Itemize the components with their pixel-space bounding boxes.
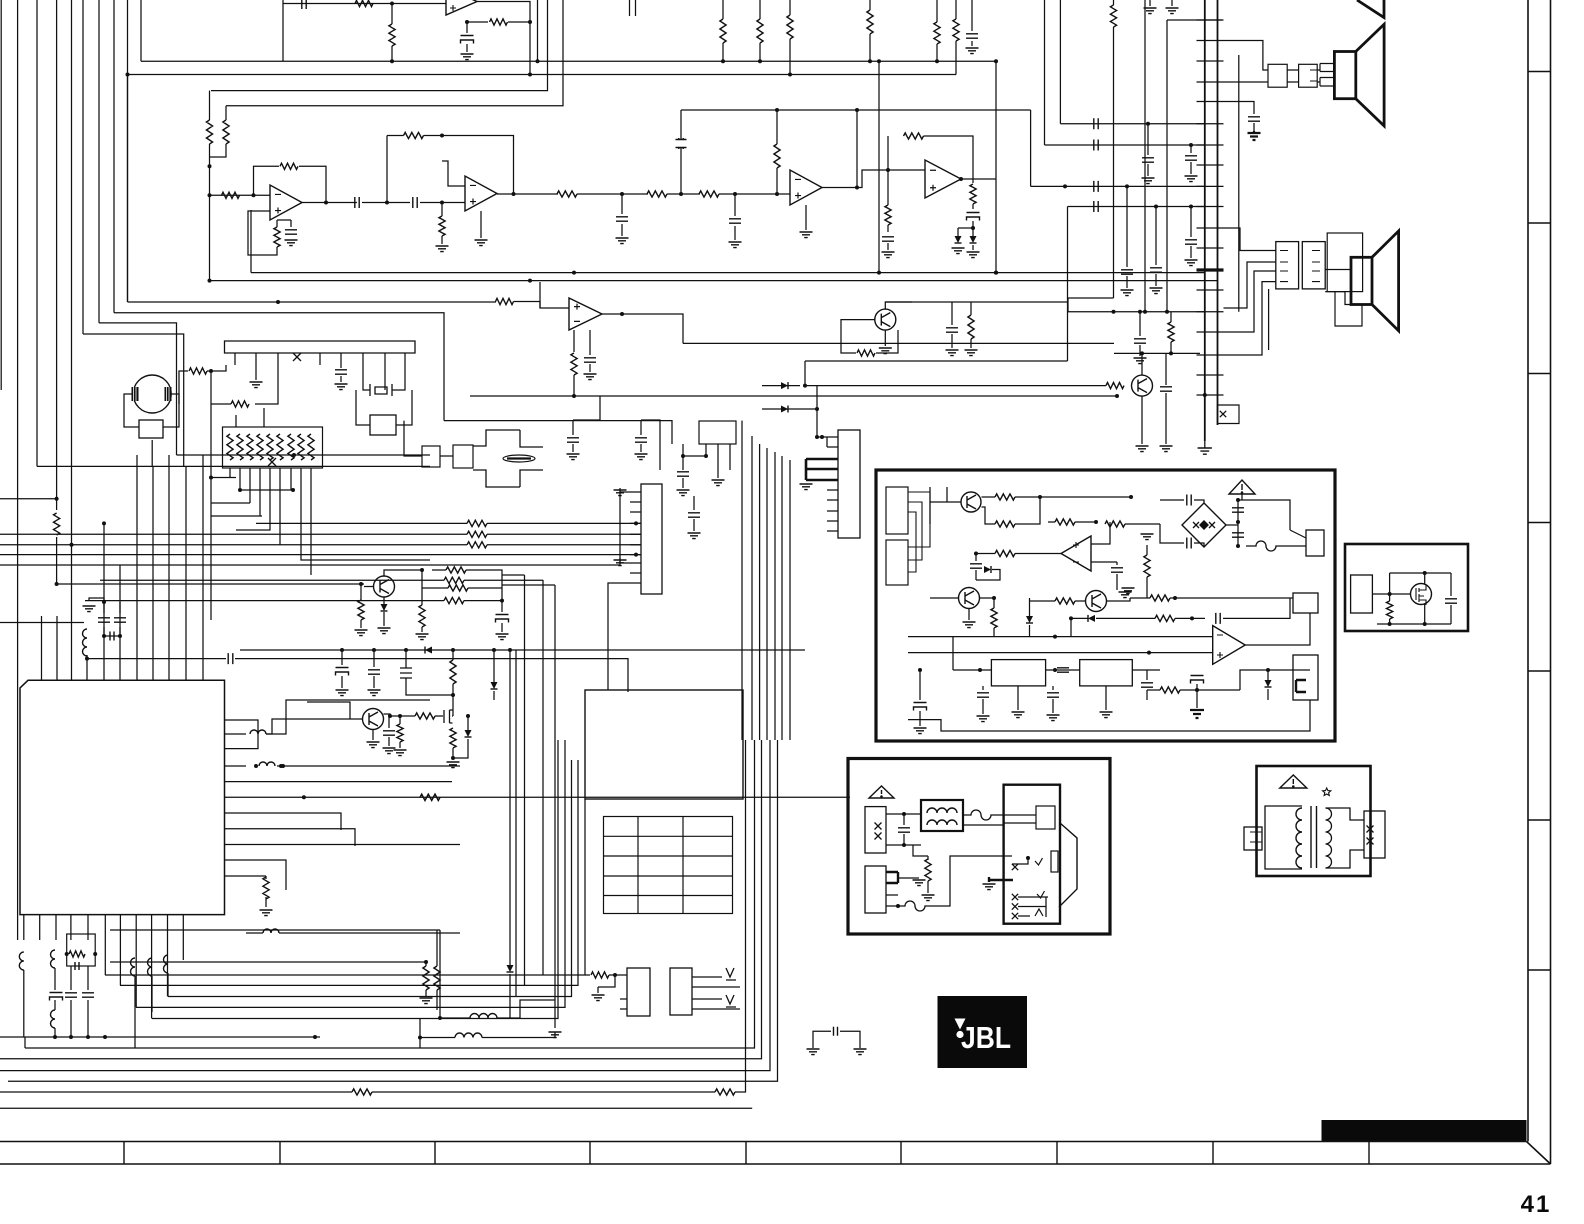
wire vert x=555 bbox=[554, 585, 556, 1000]
wire bus 1060 bbox=[1059, 0, 1061, 124]
wire vert x=635 bbox=[635, 0, 637, 16]
node 280b bbox=[528, 279, 532, 283]
capacitor C1117 bbox=[1111, 568, 1123, 572]
wire bl8 bbox=[87, 1000, 89, 1037]
node ic link bbox=[1053, 668, 1057, 672]
wire r876b bbox=[265, 897, 267, 907]
ground 622 bbox=[616, 238, 629, 244]
wire CN1 r b bbox=[211, 403, 231, 405]
wire u3a in bbox=[210, 194, 271, 196]
wire q3 c3 bbox=[466, 570, 502, 588]
wire rail 658b bbox=[235, 659, 628, 692]
wire u3b fb b bbox=[424, 136, 514, 195]
wire rail y=477 bbox=[211, 477, 236, 479]
resistor R u3a b bbox=[274, 227, 280, 247]
diode D785b bbox=[781, 406, 788, 413]
wire vert 420 bbox=[419, 1018, 421, 1048]
wire pin766 bbox=[277, 765, 460, 767]
resistor R pa3 bbox=[1055, 519, 1075, 525]
capacitor CE920 bbox=[914, 703, 927, 711]
bus tick y=355 bbox=[1197, 354, 1224, 356]
title strip divider x=124 bbox=[123, 1142, 125, 1165]
capacitor C1238a bbox=[1232, 508, 1244, 512]
pin CN2 1 bbox=[630, 491, 641, 493]
node x=56 y=584 bbox=[55, 582, 59, 586]
wire u2 fb b bbox=[508, 21, 530, 23]
inductor LF1 top bbox=[927, 808, 957, 813]
wire bl2 bbox=[54, 968, 56, 990]
wire d468b bbox=[453, 739, 468, 758]
wire q8 a bbox=[1030, 600, 1056, 602]
capacitor C brg2 bbox=[1187, 538, 1191, 549]
bus tick y=101.5 bbox=[1197, 101, 1224, 103]
wire a2 bot bbox=[210, 144, 227, 157]
wire RA1 d9 bbox=[310, 468, 312, 575]
wire r971a bbox=[970, 302, 972, 315]
inductor L bl5 bbox=[148, 958, 153, 976]
node hang 870 bbox=[868, 59, 872, 63]
node 272a bbox=[572, 271, 576, 275]
resistor R bl bbox=[69, 951, 85, 957]
wire tp2 b bbox=[692, 986, 740, 988]
node pin766b bbox=[279, 764, 283, 768]
wire pin feed 7 bbox=[152, 466, 154, 655]
node a 166 bbox=[208, 164, 212, 168]
wire c1053a bbox=[1052, 686, 1054, 690]
capacitor C1191b bbox=[1185, 240, 1197, 244]
box power supply unit bbox=[848, 759, 1110, 935]
wire ce920a bbox=[919, 670, 921, 700]
wire y=622 stub bbox=[0, 622, 84, 624]
ground q3 rb bbox=[355, 630, 368, 636]
resistor R777 bbox=[774, 144, 780, 168]
node 127 74 bbox=[126, 73, 130, 77]
lambda mark sw bbox=[1035, 909, 1043, 916]
wire rail y=353 bbox=[1114, 352, 1200, 354]
wire IC top pin x=71.5 bbox=[71, 655, 73, 680]
wire 681 up bbox=[680, 110, 682, 194]
pin CN2 7 bbox=[630, 554, 641, 556]
wire motor feed2 bbox=[207, 365, 226, 371]
capacitor C bl3 bbox=[82, 993, 94, 997]
wire u3a b3 bbox=[277, 219, 291, 221]
wire tp a bbox=[585, 974, 590, 976]
wire pin813 bbox=[246, 813, 341, 830]
capacitor C573 bbox=[567, 438, 579, 442]
resistor rail 544 bbox=[467, 542, 487, 548]
bus tick y=311.7 bbox=[1197, 311, 1224, 313]
wire hang 956b bbox=[955, 41, 957, 75]
inductor L bl4 bbox=[131, 958, 136, 976]
node 1238a bbox=[1236, 498, 1240, 502]
capacitor C952 bbox=[946, 328, 958, 332]
transistor Q8 bbox=[1086, 591, 1107, 612]
wire IC top pin x=169 bbox=[168, 655, 170, 680]
ground 683 bbox=[677, 490, 690, 496]
node feed4 bbox=[102, 521, 106, 525]
node bl a bbox=[65, 952, 69, 956]
wire RA1 d4 bbox=[259, 468, 261, 516]
wire aux g bbox=[1372, 593, 1410, 595]
wire u3a plus bbox=[248, 211, 270, 240]
wire X2 b bbox=[396, 390, 412, 425]
node pin766a bbox=[254, 764, 258, 768]
wire vert x=537 bbox=[537, 0, 539, 61]
wire left bus x=1 bbox=[0, 0, 2, 390]
bridge rectifier BR1 bbox=[1182, 503, 1226, 547]
resistor R422 bbox=[419, 605, 425, 627]
wire c952a bbox=[951, 302, 953, 325]
wire IC bottom pin x=70.9 bbox=[70, 915, 72, 940]
ground c1140 bbox=[1134, 358, 1147, 364]
wire raux2 bbox=[1389, 619, 1391, 624]
border right inner bbox=[1527, 0, 1529, 1142]
title strip divider x=435 bbox=[434, 1142, 436, 1165]
wire hang 723 b bbox=[722, 43, 724, 61]
x-mark BR1 a bbox=[1193, 522, 1199, 528]
wire cn3 link bbox=[826, 437, 828, 447]
wire sp2 d bbox=[1287, 81, 1298, 83]
bus tick y=123.7 bbox=[1197, 123, 1224, 125]
capacitor C u2 bbox=[461, 36, 474, 44]
wire rail y=74.5 bbox=[128, 74, 957, 76]
wire pa1 bbox=[1015, 496, 1040, 498]
ground CN3 bbox=[800, 484, 813, 490]
ground u3b bbox=[475, 240, 488, 246]
warning triangle PA bbox=[1229, 480, 1255, 494]
wire brg2 bbox=[1160, 524, 1184, 543]
wire tap y=206 bbox=[1068, 206, 1205, 208]
wire 1067 up bbox=[1067, 207, 1069, 362]
node 272c bbox=[994, 271, 998, 275]
wire pa q6 top bbox=[946, 487, 948, 502]
wire vert 440 bbox=[439, 930, 441, 1018]
ground c1191b bbox=[1185, 260, 1198, 266]
wire IC right pin y=720 bbox=[225, 719, 247, 721]
connector J4 pins bbox=[1312, 251, 1320, 282]
wire u2 r1 bbox=[391, 4, 393, 25]
wire RA1 d1 bbox=[229, 468, 231, 478]
wire rail y=396 bbox=[470, 395, 1117, 397]
node 280a bbox=[208, 279, 212, 283]
capacitor C658 bbox=[228, 653, 233, 664]
ground 641 bbox=[635, 454, 648, 460]
wire RA1 d2 bbox=[239, 468, 241, 490]
wire pa3a bbox=[1048, 521, 1055, 523]
capacitor C694 bbox=[688, 513, 700, 517]
wire aux top bbox=[1390, 572, 1451, 574]
node rail 477 bbox=[209, 476, 213, 480]
wire c1127a bbox=[1126, 186, 1128, 267]
capacitor C972 bbox=[966, 34, 978, 38]
wire r453c bbox=[452, 748, 454, 758]
node 857 110 bbox=[855, 108, 859, 112]
wire IC bottom pin x=120.4 bbox=[119, 915, 121, 986]
node pa top 1131 bbox=[1129, 495, 1133, 499]
connector J3 pins bbox=[1280, 251, 1288, 282]
resistor R q3 c bbox=[446, 567, 466, 573]
wire pin781 bbox=[246, 781, 452, 783]
node aux b1 bbox=[1388, 622, 1392, 626]
ground Q7 bbox=[963, 622, 976, 628]
bus tick y=40.5 bbox=[1197, 40, 1224, 42]
wire q2 loop b bbox=[876, 330, 898, 353]
node osc bbox=[85, 657, 89, 661]
node l467 bbox=[418, 1036, 422, 1040]
node 1071 618 bbox=[1069, 616, 1073, 620]
capacitor C psu1 bbox=[898, 828, 910, 832]
wire xtal2 bbox=[119, 602, 121, 613]
wire sp3 in4 bbox=[1224, 282, 1276, 355]
wire psu l1 bbox=[886, 813, 921, 815]
capacitor C1147b bbox=[1141, 683, 1153, 687]
wire cap-gnd a bbox=[813, 1031, 831, 1048]
inductor L bl6 bbox=[164, 955, 169, 973]
wire IC right pin y=748.6 bbox=[225, 748, 247, 750]
box display unit bbox=[585, 690, 743, 799]
wire rail y=580 bbox=[100, 579, 444, 581]
op-amp U3A bbox=[270, 185, 302, 220]
pin CN2 6 bbox=[630, 544, 641, 546]
ground D2 bbox=[967, 252, 980, 258]
wire vert x=141 bbox=[140, 0, 142, 61]
wire motor feed bbox=[179, 371, 188, 404]
wire hang 790 bbox=[789, 0, 791, 15]
resistor R q8 bbox=[1055, 598, 1075, 604]
wire IC bottom pin x=56 bbox=[55, 915, 57, 940]
ground q4 bbox=[367, 742, 380, 748]
wire psu low2 bbox=[949, 855, 951, 857]
wire q5 c bbox=[1141, 353, 1143, 375]
node d out bbox=[959, 177, 963, 181]
border tick y=522.5 bbox=[1528, 522, 1551, 524]
diode D494 bbox=[491, 682, 498, 689]
node aux top bbox=[1423, 571, 1427, 575]
wire rl1 bbox=[1290, 530, 1306, 538]
x-mark CN10 a bbox=[1367, 826, 1374, 833]
x-mark CN8 a bbox=[875, 823, 882, 830]
box power switch SW1 bbox=[1004, 785, 1060, 924]
ground b1 bbox=[712, 480, 725, 486]
wire X2 a bbox=[356, 390, 370, 425]
V-mark test a bbox=[726, 968, 736, 980]
ground u2 bbox=[461, 54, 474, 60]
wire vert top 524 bbox=[502, 574, 525, 576]
node 1238b bbox=[1236, 520, 1240, 524]
wire ic2 gnd bbox=[1105, 686, 1107, 710]
transformer T2 core bbox=[1311, 806, 1317, 868]
capacitor C1166 bbox=[1160, 387, 1172, 391]
node 1055 637 bbox=[1053, 635, 1057, 639]
ground misc a bbox=[807, 1049, 820, 1055]
wire loop y=996 bbox=[168, 760, 572, 997]
wire rl2 bbox=[1290, 545, 1306, 547]
ground c952 bbox=[946, 350, 959, 356]
wire r1175c bbox=[1175, 617, 1205, 619]
wire r422a bbox=[421, 570, 423, 605]
wire rail y=110 bbox=[681, 109, 1031, 111]
node 805 bbox=[803, 384, 807, 388]
wire u5 plus bbox=[1091, 522, 1110, 544]
ground ic2 bbox=[1100, 712, 1113, 718]
wire IC bottom pin x=105.3 bbox=[104, 915, 106, 975]
wire rail y=554 bbox=[0, 554, 641, 556]
wire sp2 c bbox=[1287, 69, 1298, 71]
MOSFET Q9 bbox=[1411, 584, 1432, 605]
resistor R u3b fb bbox=[404, 132, 424, 138]
node r426 bbox=[424, 960, 428, 964]
resistor RA1 r3 bbox=[247, 434, 253, 460]
wire vert top 555 bbox=[502, 584, 555, 586]
node u2 530 bbox=[528, 73, 532, 77]
wire d o d bbox=[972, 221, 974, 236]
resistor R1092 bbox=[352, 1089, 372, 1095]
wire psu l3 bbox=[963, 824, 1004, 826]
module IC2 bbox=[1080, 660, 1133, 686]
ground c389 bbox=[383, 748, 396, 754]
wire u3c out bbox=[822, 170, 888, 188]
wire loop y=1048 bbox=[24, 1037, 26, 1048]
node bl b bbox=[93, 952, 97, 956]
wire bus 1044 bbox=[1044, 0, 1046, 145]
bus tick y=20 bbox=[1197, 19, 1224, 21]
ground 972 bbox=[966, 48, 979, 54]
connector J2 bbox=[1299, 64, 1318, 87]
capacitor C t3 bbox=[1094, 181, 1098, 192]
resistor R1175b bbox=[1155, 615, 1175, 621]
wire IC right pin y=781.6 bbox=[225, 781, 247, 783]
wire psu l2 bbox=[886, 844, 921, 846]
wire 777a bbox=[776, 110, 778, 144]
wire cn3 feed bbox=[817, 436, 838, 438]
node 817 bbox=[815, 435, 819, 439]
wire a2 top bbox=[225, 106, 227, 120]
wire sw b bbox=[1018, 896, 1048, 898]
diode D468 bbox=[465, 730, 472, 737]
wire q4 row bbox=[390, 715, 415, 717]
node q3 base bbox=[359, 582, 363, 586]
wire CN1 p341 bbox=[340, 365, 342, 368]
testpoint block TP2 bbox=[670, 968, 692, 1015]
ground d in bbox=[882, 252, 895, 258]
ground CN1 bbox=[250, 382, 263, 388]
wire bundle x=767 bbox=[766, 448, 768, 740]
wire rail y=503 bbox=[211, 502, 250, 504]
transistor Q6 bbox=[961, 492, 981, 512]
inductor L osc bbox=[83, 629, 88, 656]
wire u6 minus v bbox=[1070, 618, 1072, 636]
diode D1268 bbox=[1265, 680, 1272, 687]
wire d out r bbox=[972, 179, 974, 183]
title strip divider x=1057 bbox=[1056, 1142, 1058, 1165]
pin CN3 447 bbox=[827, 446, 838, 448]
wire pin feed 8 bbox=[168, 455, 170, 655]
wire bus turn y=334 bbox=[83, 334, 184, 466]
resistor R pa2 bbox=[995, 521, 1015, 527]
resistor R797 bbox=[420, 794, 440, 800]
wire rail y=516 bbox=[211, 515, 262, 517]
bus tick y=228 bbox=[1197, 227, 1224, 229]
wire r400b bbox=[399, 742, 401, 748]
inductor L bl3 bbox=[51, 1010, 56, 1028]
node 879 61 bbox=[877, 59, 881, 63]
capacitor C brg1 bbox=[1187, 495, 1191, 506]
wire brg1 bbox=[1160, 499, 1184, 501]
connector CN1 strip bbox=[225, 341, 416, 353]
wire 1030 vert bbox=[1030, 110, 1032, 186]
node sw 858 bbox=[1026, 856, 1030, 860]
resistor R d fb bbox=[904, 133, 924, 139]
wire c389a bbox=[388, 716, 390, 728]
node ce920 bbox=[918, 668, 922, 672]
wire c374b bbox=[373, 676, 375, 688]
wire sp3 l1 bbox=[1325, 269, 1351, 271]
wire d fb b bbox=[924, 136, 974, 179]
node 468 716 bbox=[466, 714, 470, 718]
border tick y=373.5 bbox=[1528, 373, 1551, 375]
wire q4 base up bbox=[307, 702, 350, 719]
wire bl1 bbox=[23, 970, 25, 1037]
wire rail y=584 q3 base bbox=[56, 583, 364, 585]
node u3b fb bbox=[440, 134, 444, 138]
bus tick y=248 bbox=[1197, 247, 1224, 249]
pin CN3 531 bbox=[827, 530, 838, 532]
wire IC bottom pin x=183.3 bbox=[182, 915, 184, 960]
wire rail y=499 bbox=[0, 498, 57, 500]
pin CN2 4 bbox=[630, 522, 641, 524]
speaker SP2 bbox=[1334, 52, 1355, 99]
resistor RA1 r7 bbox=[288, 434, 294, 460]
wire c1156b bbox=[1155, 274, 1157, 286]
border bottom outer bbox=[0, 1141, 1527, 1143]
wire CN1 p385 bbox=[384, 365, 386, 390]
wire rail 194b bbox=[577, 193, 648, 195]
wire motor down bbox=[210, 371, 212, 620]
wire l467b bbox=[482, 1032, 555, 1038]
capacitor C1063 bbox=[1057, 668, 1069, 672]
wire pin828 bbox=[246, 829, 355, 846]
capacitor C u3ab1 bbox=[355, 197, 359, 208]
wire rail 637 bbox=[908, 636, 1071, 638]
node 400 716 bbox=[398, 714, 402, 718]
capacitor C u4 b bbox=[584, 358, 596, 362]
wire vert x=629 bbox=[629, 0, 631, 16]
wire left bus x=56.6 a bbox=[56, 0, 58, 510]
node hang 723 bbox=[721, 59, 725, 63]
pin CN2 3 bbox=[630, 511, 641, 513]
node hang 760 bbox=[758, 59, 762, 63]
title strip divider x=590 bbox=[589, 1142, 591, 1165]
node 650f bbox=[508, 648, 512, 652]
wire sp3 l2 bbox=[1325, 292, 1351, 305]
capacitor C1148 bbox=[1142, 158, 1154, 162]
node t3a bbox=[1063, 184, 1067, 188]
resistor R u3a fb bbox=[280, 163, 298, 169]
bus tick y=395 bbox=[1197, 394, 1224, 396]
wire r1170a bbox=[1147, 689, 1160, 691]
diode D785a bbox=[781, 382, 788, 389]
wire u2 out bbox=[477, 2, 530, 23]
wire d1268b bbox=[1267, 689, 1269, 700]
bus tick y=186.4 bbox=[1197, 185, 1224, 187]
box SP3 enclosure 2 bbox=[1335, 292, 1362, 326]
capacitor C681 gap bbox=[675, 139, 687, 148]
resistor R u3a in bbox=[222, 192, 240, 198]
resistor R c2 bbox=[647, 191, 667, 197]
wire gnd1172 stub bbox=[1171, 0, 1173, 6]
ground 573 bbox=[567, 454, 580, 460]
wire hang 790b bbox=[789, 39, 791, 75]
